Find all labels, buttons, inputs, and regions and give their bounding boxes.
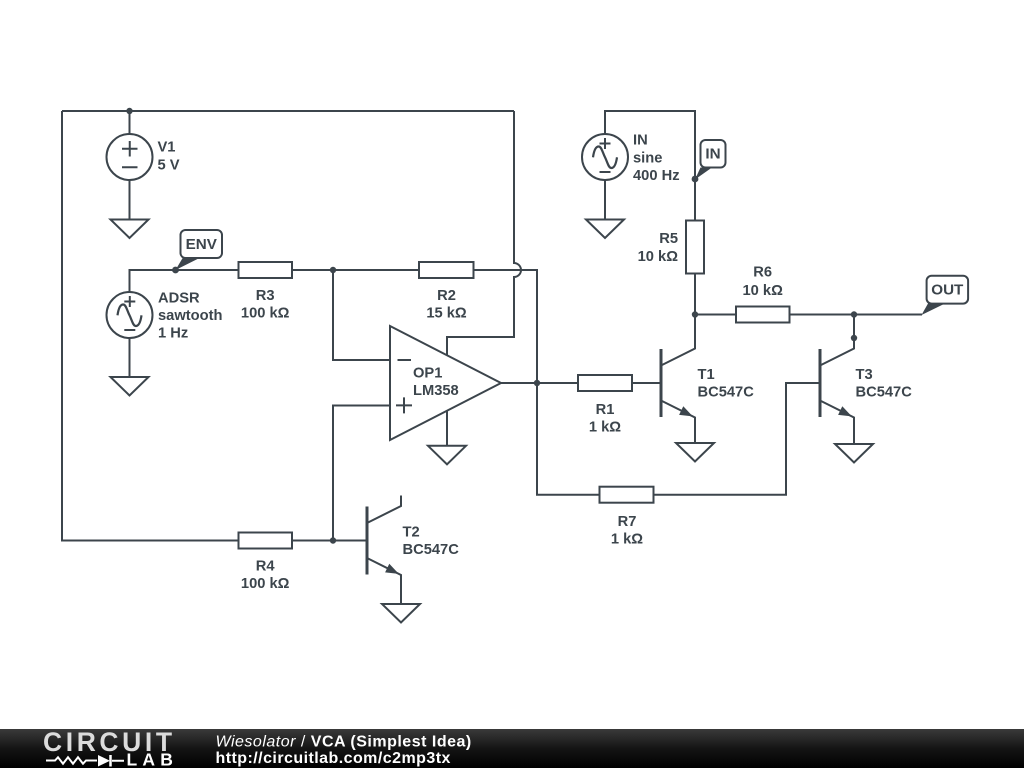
svg-text:T1: T1: [698, 367, 715, 383]
node junction output feedback: [534, 380, 540, 386]
svg-text:http://circuitlab.com/c2mp3tx: http://circuitlab.com/c2mp3tx: [216, 750, 451, 767]
wire ADSR bottom to ground: [129, 338, 131, 377]
svg-text:LAB: LAB: [127, 749, 179, 768]
svg-text:R7: R7: [618, 514, 637, 530]
resistor R4: [239, 533, 293, 549]
source ADSR sawtooth: [107, 292, 153, 338]
svg-text:1 kΩ: 1 kΩ: [611, 532, 643, 548]
resistor R5: [686, 221, 704, 274]
label V1 5 V: [158, 140, 180, 174]
wire V- pin to ground: [446, 411, 448, 446]
node junction R4 T2 non-inverting: [330, 537, 336, 543]
wire op-amp output: [501, 382, 578, 384]
svg-text:V1: V1: [158, 140, 176, 156]
ground for T2: [382, 604, 420, 623]
wire inverting input: [333, 270, 390, 360]
wire left rail down to R4: [62, 111, 239, 541]
node junction R6 T3 OUT: [851, 311, 857, 317]
wire R7 to T3 base: [654, 383, 821, 495]
svg-text:OUT: OUT: [931, 281, 964, 298]
label T3 BC547C: [856, 367, 913, 401]
wire R1 to T1 base: [632, 382, 661, 384]
wire ADSR top to R3: [130, 270, 239, 292]
ground for ADSR: [111, 377, 149, 396]
logo resistor zigzag: [46, 757, 97, 763]
node ENV: [172, 267, 179, 274]
node junction R3 R2 inverting: [330, 267, 336, 273]
svg-text:100 kΩ: 100 kΩ: [241, 576, 290, 592]
voltage source V1: [107, 111, 153, 220]
footer bar: [0, 729, 1024, 768]
svg-text:sawtooth: sawtooth: [158, 308, 222, 324]
svg-text:R4: R4: [256, 559, 276, 575]
label IN sine 400 Hz: [633, 133, 680, 184]
transistor T1: [661, 315, 695, 444]
logo diode: [98, 755, 124, 767]
svg-text:R3: R3: [256, 288, 275, 304]
wire output node down to R7: [537, 383, 600, 495]
svg-text:T3: T3: [856, 367, 873, 383]
ground for OP1: [428, 446, 466, 465]
svg-text:R5: R5: [659, 231, 678, 247]
net flag ENV: [176, 230, 223, 270]
resistor R6: [736, 307, 790, 323]
ground for V1: [111, 220, 149, 239]
svg-text:BC547C: BC547C: [403, 542, 460, 558]
node T3 collector pin: [851, 335, 857, 341]
svg-text:5 V: 5 V: [158, 158, 180, 174]
label R4 100 kOhm: [241, 559, 290, 593]
transistor T3: [820, 338, 854, 444]
resistor R3: [239, 262, 293, 278]
ground for T3: [835, 444, 873, 463]
wire R6 to OUT: [790, 314, 923, 316]
wire junction to R2: [333, 269, 419, 271]
net flag IN: [695, 140, 726, 180]
svg-text:1 Hz: 1 Hz: [158, 326, 188, 342]
op-amp OP1: [390, 326, 501, 440]
svg-text:sine: sine: [633, 150, 662, 166]
label T2 BC547C: [403, 525, 460, 559]
svg-text:1 kΩ: 1 kΩ: [589, 419, 621, 435]
transistor T2: [367, 496, 401, 605]
wire IN source to R5: [605, 111, 695, 221]
svg-text:OP1: OP1: [413, 365, 442, 381]
label ADSR sawtooth 1 Hz: [158, 291, 222, 342]
svg-text:R1: R1: [596, 402, 615, 418]
svg-text:BC547C: BC547C: [856, 385, 913, 401]
net flag OUT: [922, 276, 969, 315]
svg-text:100 kΩ: 100 kΩ: [241, 305, 290, 321]
wire R5 bottom to junction: [694, 274, 696, 315]
ground for T1: [676, 443, 714, 462]
svg-text:10 kΩ: 10 kΩ: [638, 249, 679, 265]
resistor R7: [600, 487, 654, 503]
svg-text:400 Hz: 400 Hz: [633, 168, 680, 184]
svg-text:Wiesolator / VCA (Simplest Ide: Wiesolator / VCA (Simplest Idea): [216, 734, 472, 751]
label R1 1 kOhm: [589, 402, 621, 435]
svg-text:IN: IN: [705, 145, 720, 162]
source IN sine: [582, 134, 628, 180]
label R3 100 kOhm: [241, 288, 290, 321]
svg-text:ADSR: ADSR: [158, 291, 200, 307]
wire R3 to junction: [292, 269, 333, 271]
svg-text:R2: R2: [437, 288, 456, 304]
svg-text:ENV: ENV: [186, 236, 218, 253]
wire V+ supply with hop over R2 wire: [447, 111, 521, 356]
wire junction to R6: [695, 314, 736, 316]
wire IN source bottom to ground: [604, 180, 606, 220]
svg-text:LM358: LM358: [413, 383, 459, 399]
svg-text:IN: IN: [633, 133, 648, 149]
label R7 1 kOhm: [611, 514, 643, 548]
node junction T1 collector R5 R6: [692, 311, 698, 317]
label R6 10 kOhm: [743, 265, 784, 300]
svg-text:15 kΩ: 15 kΩ: [426, 305, 467, 321]
label T1 BC547C: [698, 367, 755, 401]
svg-text:BC547C: BC547C: [698, 385, 755, 401]
wire R4 to T2 base: [292, 540, 367, 542]
wire R2 right to output node: [474, 270, 538, 383]
resistor R1: [578, 375, 632, 391]
node IN: [692, 176, 699, 183]
wire T3 collector link: [853, 315, 855, 339]
svg-text:T2: T2: [403, 525, 420, 541]
wire top rail from V1 to supply drop: [62, 110, 514, 112]
node junction V1 tap: [126, 108, 132, 114]
label R5 10 kOhm: [638, 231, 679, 265]
svg-text:10 kΩ: 10 kΩ: [743, 283, 784, 299]
wire non-inverting input: [333, 406, 390, 541]
svg-text:R6: R6: [753, 265, 772, 281]
resistor R2: [419, 262, 474, 278]
label OP1 LM358: [413, 365, 459, 399]
label R2 15 kOhm: [426, 288, 467, 321]
ground for IN source: [586, 220, 624, 239]
